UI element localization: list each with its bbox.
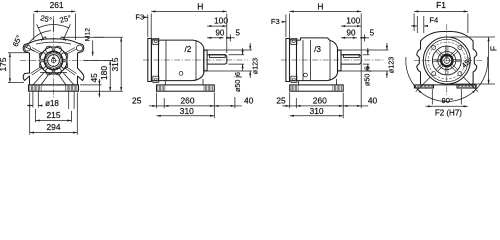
- svg-text:5: 5: [370, 29, 375, 38]
- svg-text:25: 25: [276, 95, 286, 105]
- dim 5 /2: [227, 37, 235, 39]
- svg-text:/2: /2: [184, 45, 191, 54]
- svg-text:310: 310: [310, 106, 324, 116]
- svg-text:25: 25: [132, 95, 142, 105]
- svg-text:25°: 25°: [59, 13, 72, 25]
- svg-text:180: 180: [99, 66, 109, 80]
- svg-text:ø50 j6: ø50 j6: [233, 72, 242, 92]
- dim F4: [416, 16, 418, 33]
- svg-text:F3: F3: [271, 17, 280, 26]
- housing silhouette view4: [417, 31, 477, 85]
- dim o123 /2: [205, 49, 252, 51]
- V ribs under hub: [33, 73, 44, 85]
- X ribs to ears view1: [31, 49, 43, 55]
- bottom dims 25 260 40 /3: [289, 93, 291, 109]
- view 1: gearbox front view: [0, 0, 123, 134]
- hub circles view1: [44, 51, 62, 69]
- svg-text:90: 90: [215, 29, 224, 38]
- dim F3 /3: [285, 15, 287, 38]
- svg-text:H: H: [317, 1, 323, 11]
- svg-text:25°: 25°: [39, 13, 52, 25]
- dim 294: [29, 93, 31, 135]
- foot flange view1: [29, 85, 79, 91]
- dim H /2: [150, 14, 152, 39]
- keyway view4: [446, 57, 448, 58]
- label M12 leader: [92, 40, 94, 56]
- svg-text:H: H: [197, 1, 203, 11]
- svg-text:M12: M12: [85, 28, 92, 41]
- svg-text:5: 5: [235, 29, 240, 38]
- shaft bore keyway view1: [51, 58, 55, 62]
- bolt circle view4: [428, 42, 465, 79]
- svg-text:F1: F1: [436, 0, 446, 10]
- stage joint lines /3: [302, 40, 304, 81]
- view 4: input flange face view: [406, 0, 499, 117]
- front section /2: [151, 40, 158, 81]
- dim H /3: [289, 14, 291, 39]
- svg-text:45°: 45°: [460, 56, 474, 70]
- dim 261 top: [33, 14, 35, 41]
- shaft key /3: [343, 55, 359, 58]
- dim 215: [35, 109, 37, 122]
- dim F3 /2: [147, 15, 149, 38]
- bolt boss bottom /3: [291, 76, 297, 82]
- feet /3: [290, 85, 344, 91]
- svg-text:F2 (H7): F2 (H7): [435, 109, 462, 118]
- input flange B5 /2: [148, 39, 152, 82]
- svg-text:ø50 j6: ø50 j6: [363, 66, 372, 86]
- svg-text:F4: F4: [429, 16, 438, 25]
- svg-text:ø18: ø18: [45, 99, 59, 108]
- leg lines /3: [298, 81, 300, 85]
- M12 boss nub left: [41, 37, 46, 41]
- housing outline view1: [23, 39, 84, 85]
- radial line 225deg: [416, 77, 431, 92]
- bolt boss top /2: [153, 38, 159, 44]
- svg-text:ø123: ø123: [250, 58, 259, 74]
- hub boss star view1: [61, 62, 68, 69]
- shaft section ring view4: [441, 55, 452, 66]
- svg-text:261: 261: [50, 0, 64, 10]
- output hub boss /2: [203, 48, 205, 73]
- dim 100 /3: [341, 25, 361, 27]
- svg-text:260: 260: [313, 95, 327, 105]
- spigot circle view4: [432, 46, 461, 75]
- dim F right: [450, 36, 495, 38]
- svg-text:F3: F3: [135, 13, 144, 22]
- main body /3: [297, 38, 338, 81]
- bolt boss top /3: [291, 38, 297, 44]
- svg-text:315: 315: [110, 57, 120, 71]
- dim 45 right: [80, 84, 102, 86]
- leg lines /2: [164, 81, 166, 85]
- view 2: gearbox side view /2: [132, 1, 259, 118]
- svg-text:100: 100: [346, 15, 360, 25]
- dim o50j6 /3: [363, 54, 370, 56]
- plug bolt /3: [304, 73, 308, 77]
- svg-text:310: 310: [180, 106, 194, 116]
- dim 175 left: [8, 52, 27, 54]
- input flange B5 /3: [286, 39, 290, 82]
- view 3: gearbox side view /3: [271, 1, 396, 118]
- inner dome arc view1: [36, 42, 71, 44]
- front section /3: [290, 40, 297, 81]
- svg-text:294: 294: [47, 122, 61, 132]
- shaft key /2: [210, 55, 226, 58]
- output shaft /3: [341, 55, 361, 64]
- dim 90 and 5 /2: [207, 37, 224, 39]
- output hub boss /3: [337, 48, 339, 73]
- dim 25deg arcs: [38, 25, 68, 28]
- foot pad hatch left: [29, 86, 31, 91]
- foot slot lines right: [68, 91, 70, 109]
- feet /2: [157, 85, 215, 91]
- svg-text:45: 45: [89, 73, 99, 83]
- dim o50j6 /2: [228, 54, 244, 56]
- radial line 315deg: [463, 77, 478, 92]
- dim 315 right: [62, 36, 123, 38]
- centerline view /3: [281, 59, 384, 61]
- big angle arc view4: [406, 57, 488, 102]
- output shaft /2: [207, 55, 227, 64]
- svg-text:90°: 90°: [442, 96, 453, 105]
- centerline horizontal view1: [20, 60, 112, 62]
- dim 180 right: [84, 60, 112, 62]
- svg-text:F: F: [488, 46, 498, 51]
- feet view4: [414, 85, 433, 88]
- dim 310 /3: [290, 115, 344, 117]
- arc arrows 90deg: [418, 90, 422, 94]
- svg-text:40: 40: [244, 95, 254, 105]
- dim 5 /3: [361, 37, 369, 39]
- centerlines view4: [446, 24, 448, 96]
- dim 100 /2: [207, 25, 227, 27]
- foot slot lines left: [32, 91, 34, 107]
- main body /2: [159, 40, 204, 81]
- radial line 25deg right: [63, 24, 70, 40]
- svg-text:40: 40: [368, 95, 378, 105]
- bottom dims 25 260 40 /2: [156, 93, 158, 109]
- svg-text:215: 215: [47, 110, 61, 120]
- svg-text:90: 90: [347, 29, 356, 38]
- svg-text:260: 260: [181, 95, 195, 105]
- radial line 65deg: [24, 46, 35, 51]
- keyway notch view1: [53, 57, 55, 58]
- radial line center vertical tick: [53, 20, 55, 32]
- svg-text:175: 175: [0, 57, 8, 71]
- dim 310 /2: [157, 115, 215, 117]
- upper lug left view1: [25, 45, 31, 51]
- dim 90 and 5 /3: [341, 37, 357, 39]
- centerline view /2: [143, 59, 248, 61]
- svg-text:65°: 65°: [11, 34, 24, 48]
- dim F2 H7: [431, 89, 433, 105]
- dim F1: [413, 14, 415, 32]
- stage joint lines /2: [165, 40, 167, 81]
- upper lug right view1: [77, 45, 83, 51]
- bolt holes view4: [458, 72, 462, 76]
- bolt boss bottom /2: [153, 76, 159, 82]
- centerline vertical view1: [53, 16, 55, 98]
- svg-text:/3: /3: [314, 45, 321, 54]
- foot pad hatch right: [65, 86, 67, 91]
- flange circle view4: [423, 37, 470, 84]
- dim o18: [27, 105, 33, 107]
- plug bolt /2: [179, 72, 183, 76]
- svg-text:100: 100: [214, 15, 228, 25]
- svg-text:ø123: ø123: [386, 57, 395, 73]
- dim 65deg arc: [26, 31, 51, 48]
- radial line 25deg left: [37, 24, 44, 40]
- dim o123 /3: [338, 49, 388, 51]
- M12 boss nub right: [60, 37, 65, 41]
- radial ribs view4: [454, 61, 461, 63]
